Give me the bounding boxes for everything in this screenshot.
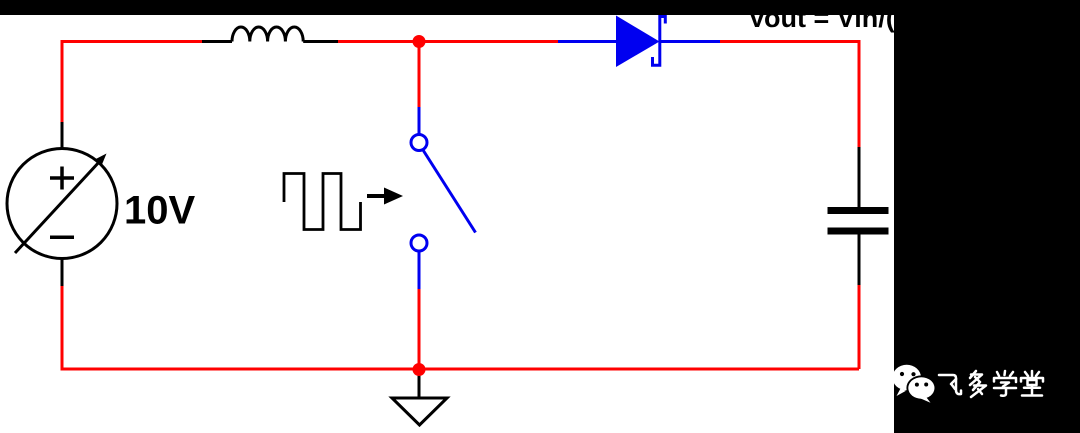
svg-text:10V: 10V (124, 189, 195, 233)
